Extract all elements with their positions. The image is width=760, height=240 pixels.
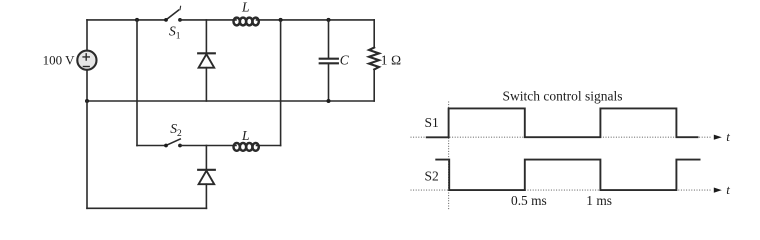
svg-text:t: t: [726, 182, 730, 197]
capacitor C: [320, 59, 338, 64]
wire capacitor top: [328, 20, 330, 58]
svg-text:1 ms: 1 ms: [586, 193, 612, 208]
switch S1: [164, 6, 182, 21]
wire L2 to output vertical: [257, 145, 281, 147]
resistor R 1ohm: [369, 48, 379, 70]
wire capacitor bottom: [328, 64, 330, 101]
svg-text:0.5 ms: 0.5 ms: [511, 193, 547, 208]
svg-text:S1: S1: [169, 23, 181, 41]
svg-text:L: L: [241, 128, 250, 143]
voltage source VS 100V: [77, 51, 96, 70]
wire S2 to inductor L2: [180, 145, 236, 147]
wire top rail left segment: [87, 19, 166, 21]
wire resistor bottom: [373, 70, 375, 102]
node top rail at capacitor: [327, 18, 331, 22]
wire source top to rail: [86, 20, 88, 50]
svg-text:1 Ω: 1 Ω: [381, 52, 402, 67]
wire diode D2 top: [205, 146, 207, 170]
switch S2: [164, 139, 182, 147]
svg-text:L: L: [241, 0, 250, 15]
svg-text:C: C: [340, 53, 350, 68]
dotted time axis S1: [411, 136, 713, 138]
arrow t axis S2: [714, 188, 722, 193]
node top rail at L2 output: [279, 18, 283, 22]
waveform S1: [426, 108, 699, 137]
arrow t axis S1: [714, 135, 722, 140]
node middle rail at capacitor: [327, 99, 331, 103]
wire diode D1 top: [205, 20, 207, 53]
wire diode D1 bottom: [205, 68, 207, 101]
wire left return vertical: [86, 101, 88, 208]
node middle rail at source: [85, 99, 89, 103]
wire S2 branch input vertical: [136, 20, 138, 146]
middle rail wire: [87, 100, 374, 102]
waveform S2: [435, 160, 700, 191]
svg-text:Switch control signals: Switch control signals: [503, 88, 623, 103]
dotted time axis S2: [411, 189, 713, 191]
wire diode D2 bottom: [205, 184, 207, 208]
wire branch to S2: [137, 145, 166, 147]
bottom rail wire: [87, 207, 206, 209]
svg-text:S2: S2: [425, 169, 439, 184]
svg-text:S1: S1: [425, 115, 439, 130]
wire L2 output vertical up to top rail: [280, 20, 282, 146]
inductor L2: [234, 143, 259, 151]
inductor L1: [234, 18, 259, 26]
svg-text:100 V: 100 V: [43, 52, 76, 67]
wire top rail inductor to resistor: [257, 19, 375, 21]
dotted vertical t=0: [448, 102, 450, 210]
node top rail at S2 branch: [135, 18, 139, 22]
wire source bottom to middle rail: [86, 71, 88, 101]
svg-text:S2: S2: [170, 121, 182, 139]
svg-text:t: t: [726, 129, 730, 144]
diode D1: [198, 53, 215, 67]
wire resistor top: [373, 20, 375, 48]
diode D2: [198, 170, 215, 184]
wire top rail S1 to inductor: [180, 19, 236, 21]
